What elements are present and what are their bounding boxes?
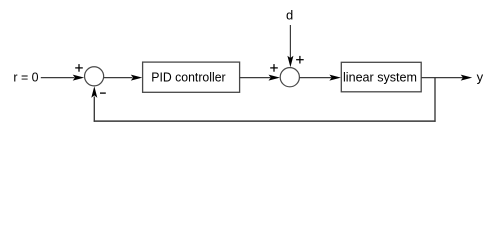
wire: feedback down segment [434, 78, 436, 122]
block U1: PID controller box [143, 62, 240, 92]
plus sign at S2 top input [296, 56, 304, 64]
wire: S2 to linear system block [299, 75, 341, 81]
block U2: linear system box [341, 62, 421, 92]
wire: d down into summing junction S2 [287, 25, 293, 67]
summing junction S2 [280, 68, 299, 87]
plus sign at S1 reference input [75, 64, 83, 72]
wire: S1 to PID controller block [104, 75, 143, 81]
svg-text:linear system: linear system [343, 70, 417, 85]
svg-text:PID controller: PID controller [151, 70, 226, 85]
svg-text:d: d [286, 7, 293, 22]
wire: feedback bottom segment [94, 120, 436, 122]
wire: r to summing junction S1 [41, 75, 84, 81]
wire: linear system output to y [421, 75, 472, 81]
minus sign at S1 feedback input [100, 92, 106, 94]
plus sign at S2 left input [270, 64, 278, 72]
summing junction S1 [85, 67, 104, 86]
svg-text:y: y [477, 69, 484, 84]
svg-text:r = 0: r = 0 [13, 70, 38, 85]
wire: feedback up segment into S1 [91, 86, 97, 122]
wire: PID controller to summing junction S2 [240, 75, 280, 81]
